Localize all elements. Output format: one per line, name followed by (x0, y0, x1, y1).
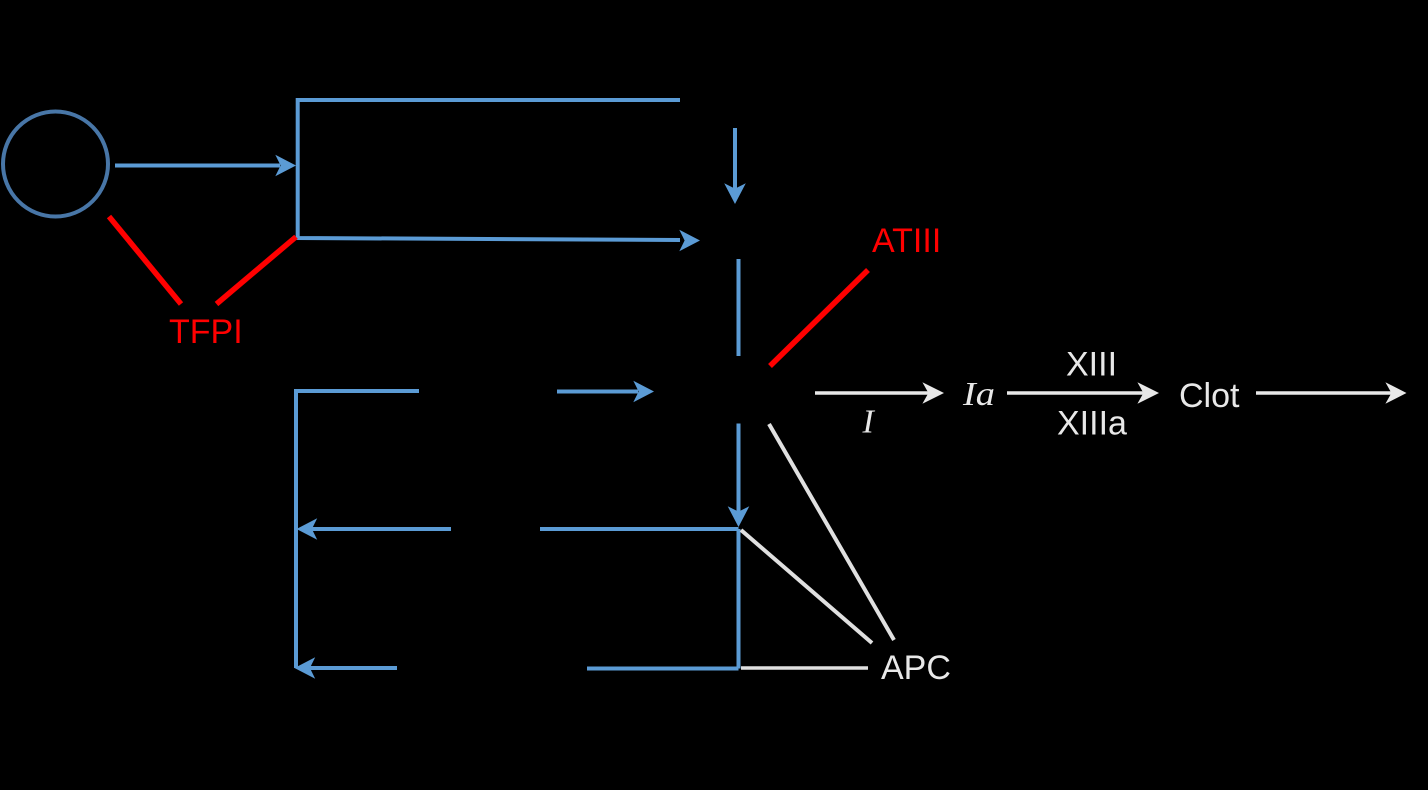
wire: APC diagonal 1 (769, 424, 894, 640)
wire: vertical segment above node (737, 259, 741, 356)
wire: vertical with down arrow into middle line (737, 424, 741, 515)
svg-text:I: I (862, 404, 876, 441)
wire: APC diagonal 2 (741, 530, 872, 643)
wire: arrow into node (y=391.5) (557, 390, 638, 394)
wire: vertical arrow down (top) (733, 128, 737, 190)
wire: bracket bottom arrowhead (679, 230, 700, 252)
svg-text:Ia: Ia (962, 376, 995, 413)
wire: bottom right segment (587, 667, 739, 671)
wire: middle left arrow (y=528.5) (312, 527, 451, 531)
wire: TF to complex bracket (arrow) (115, 164, 280, 168)
wire: white arrow after Clot (1256, 391, 1393, 395)
wire: APC horizontal (741, 666, 868, 670)
wire: bottom left arrow (y=668) (310, 666, 397, 670)
inhibitor line ATIII (770, 270, 868, 366)
inhibitor line TFPI left (109, 217, 181, 305)
wire: white arrow I->Ia (815, 391, 930, 395)
svg-text:XIIIa: XIIIa (1057, 405, 1127, 443)
node TF (circle) (3, 112, 108, 217)
wire: white arrow XIII/XIIIa (1007, 391, 1145, 395)
svg-text:XIII: XIII (1066, 345, 1117, 383)
bracket: complex box edge (298, 100, 680, 240)
wire: middle right segment (540, 527, 739, 531)
wire: left column structure (296, 391, 419, 668)
wire: vertical middle-to-bottom (737, 529, 741, 669)
inhibitor line TFPI right (217, 237, 297, 304)
svg-text:Clot: Clot (1179, 377, 1240, 415)
svg-text:ATIII: ATIII (872, 222, 941, 260)
svg-text:APC: APC (881, 649, 951, 687)
svg-text:TFPI: TFPI (169, 313, 243, 351)
